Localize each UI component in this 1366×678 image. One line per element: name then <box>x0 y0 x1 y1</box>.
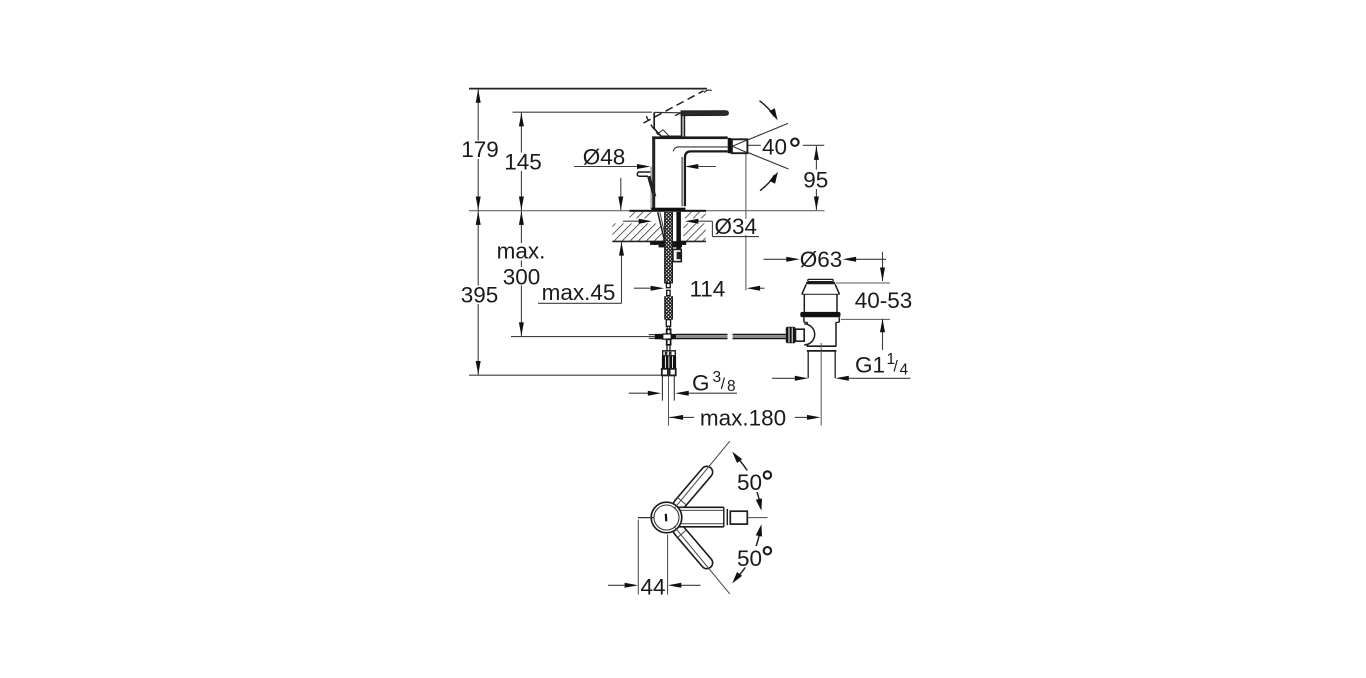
svg-text:Ø34: Ø34 <box>715 214 758 239</box>
reference line 300 / pop-up rod level <box>511 336 655 338</box>
svg-text:G1: G1 <box>855 353 885 378</box>
reference line 145 (closed lever) <box>513 111 653 113</box>
svg-text:300: 300 <box>503 264 541 289</box>
cartridge cap under lever <box>654 112 681 136</box>
mounting flange <box>650 242 686 245</box>
dimension 40-53 <box>836 282 890 284</box>
lever (closed position) <box>681 111 729 116</box>
dimension Ø34 (deck hole) <box>623 220 640 222</box>
waste seal ring <box>800 312 840 317</box>
check valve <box>666 345 668 351</box>
plan view handle lever upper <box>671 464 715 513</box>
supply axis extension <box>668 375 670 425</box>
dimension 114 <box>634 287 652 289</box>
label 50deg upper <box>734 471 765 493</box>
svg-text:44: 44 <box>640 574 665 599</box>
svg-text:/: / <box>721 376 726 393</box>
plan view aerator square <box>730 511 747 524</box>
body left thin extension <box>650 167 652 210</box>
plan view centerline <box>638 517 654 519</box>
dimension Ø63 <box>764 258 788 260</box>
dimension Ø48 (body) <box>574 166 638 168</box>
dimension G1 1/4 <box>772 377 796 379</box>
lever raised position (dashed) <box>644 91 704 123</box>
waste tailpipe <box>807 351 809 378</box>
aerator <box>728 138 731 153</box>
label 50deg lower <box>734 546 765 568</box>
waste neck <box>803 294 805 312</box>
pop-up rod cross fitting <box>667 329 671 334</box>
mounting deck hatching upper band <box>630 212 652 218</box>
waste flare <box>802 284 806 294</box>
rod guide <box>673 249 681 261</box>
svg-text:Ø48: Ø48 <box>583 144 626 169</box>
svg-text:Ø63: Ø63 <box>800 247 843 272</box>
top reference line (lever top, 179) <box>469 88 707 90</box>
hose end neck <box>666 320 670 327</box>
svg-text:395: 395 <box>461 283 499 308</box>
waterway inner line <box>681 157 683 206</box>
svg-text:max.180: max.180 <box>700 405 786 430</box>
svg-text:50: 50 <box>737 470 762 495</box>
svg-text:179: 179 <box>461 137 499 162</box>
extension line spout axis (114) <box>745 153 747 290</box>
dimension G3/8 <box>629 392 650 394</box>
pop-up pull rod knob <box>637 172 650 176</box>
spray angle arcs <box>760 101 775 117</box>
horizontal pop-up rod <box>649 334 655 336</box>
svg-text:95: 95 <box>803 167 828 192</box>
gap strip <box>672 212 676 241</box>
svg-text:50: 50 <box>737 546 762 571</box>
waste body <box>803 317 805 322</box>
svg-text:40-53: 40-53 <box>855 288 913 313</box>
svg-text:114: 114 <box>689 276 725 301</box>
dimension 179 <box>477 89 479 211</box>
label 40deg <box>747 144 761 146</box>
ball housing arc <box>804 324 815 345</box>
plan view spout arm <box>666 507 724 527</box>
pop-up rod below deck <box>676 212 681 250</box>
dimension 145 <box>520 112 522 211</box>
waste plug cap <box>808 279 833 281</box>
spout inner bottom line <box>673 147 728 152</box>
shank wedge <box>658 212 665 241</box>
svg-text:/: / <box>894 359 899 376</box>
svg-text:8: 8 <box>727 378 736 395</box>
svg-text:4: 4 <box>900 362 909 379</box>
dimension max.180 <box>669 416 694 418</box>
dimension max.300 <box>520 211 522 337</box>
50deg arcs <box>735 455 760 503</box>
50deg reference lines <box>674 441 730 509</box>
svg-text:145: 145 <box>504 149 542 174</box>
spray angle 40 deg lines <box>732 123 788 146</box>
spout underside <box>685 151 728 206</box>
deck underside line <box>612 240 706 242</box>
deck surface thick segment <box>630 210 707 212</box>
faucet body left edge <box>652 136 655 210</box>
faucet body top bar and spout top <box>652 136 728 139</box>
lever neck <box>681 115 683 136</box>
deck surface line <box>469 210 825 212</box>
waste knob <box>786 327 796 343</box>
plan view handle lever lower <box>671 522 715 571</box>
dimension 395 <box>477 211 479 376</box>
supply connection G3/8 <box>662 369 668 376</box>
dimension 44 <box>637 520 639 595</box>
waste axis extension <box>820 343 822 426</box>
svg-text:max.: max. <box>497 238 546 263</box>
flexible hose lower <box>665 296 673 319</box>
hose joint at 114 line <box>666 283 670 287</box>
flexible hose upper <box>665 212 673 284</box>
svg-text:40: 40 <box>762 134 787 159</box>
reference line 395 (supply end) <box>469 374 662 376</box>
plan view body circle <box>651 502 682 533</box>
dimension max.45 (deck thickness) <box>538 302 622 304</box>
svg-text:max.45: max.45 <box>542 280 616 305</box>
faucet base plinth <box>651 208 685 212</box>
svg-text:G: G <box>692 371 710 396</box>
mounting deck hatching main band <box>612 223 664 241</box>
dimension 95 <box>815 146 817 210</box>
waste coupling <box>807 345 837 347</box>
